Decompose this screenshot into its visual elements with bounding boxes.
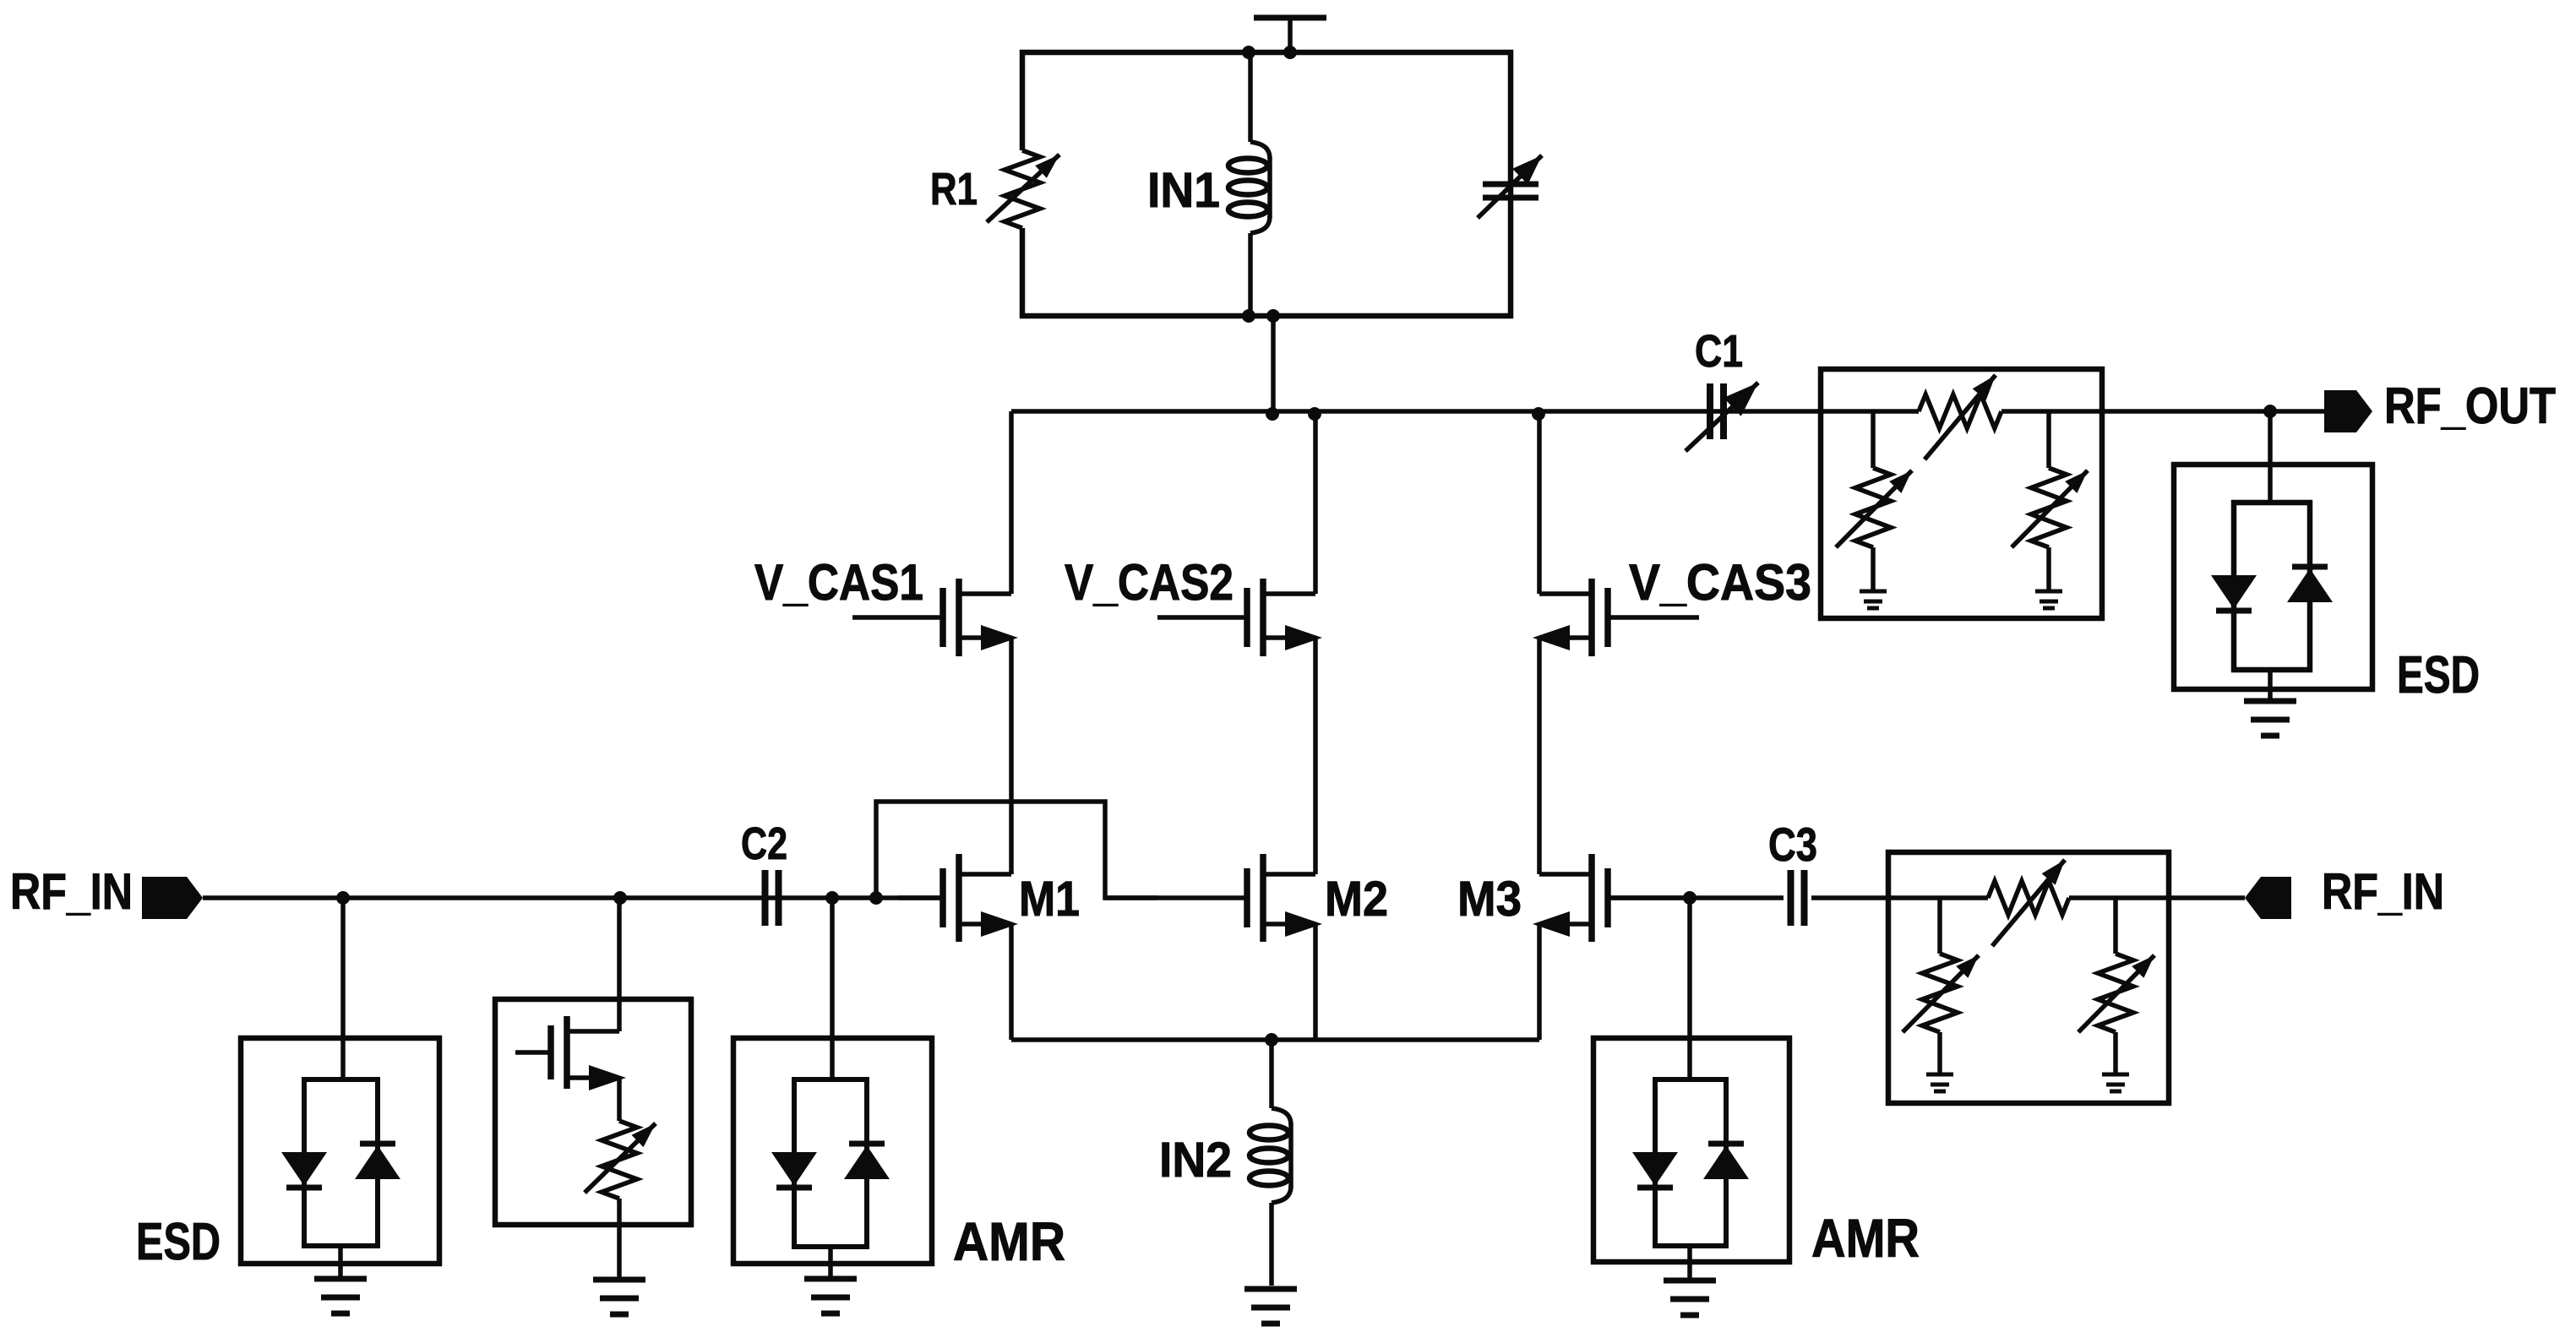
label IN2 (1159, 1133, 1232, 1188)
AMR box right (1593, 1038, 1789, 1262)
wire attenuator-lower internal (2069, 895, 2169, 900)
wire V_CAS2 drain (1313, 411, 1318, 594)
label V_CAS1 (754, 554, 923, 611)
resistor attenuator-upper series (variable) (1919, 375, 2001, 459)
wire upper shunt right to ground (2046, 547, 2051, 590)
wire AMR right to ground (1687, 1246, 1692, 1280)
wire shunt left to ground (1937, 1032, 1942, 1074)
wire to ESD right (2268, 411, 2273, 503)
wire ESD right to ground (2268, 670, 2273, 701)
inductor IN1 (1228, 52, 1270, 316)
diode AMR-left down (771, 1152, 817, 1188)
wire M2 source to bus (1313, 924, 1318, 1040)
svg-text:RF_IN: RF_IN (2322, 863, 2444, 920)
svg-text:V_CAS3: V_CAS3 (1629, 554, 1811, 611)
wire drain bus (1011, 409, 2326, 414)
svg-text:M3: M3 (1457, 872, 1522, 927)
label V_CAS3 (1629, 554, 1811, 611)
label AMR left (953, 1211, 1065, 1272)
resistor attenuator-upper shunt right (variable) (2012, 468, 2088, 547)
AMR right inner rectangle (1655, 1079, 1726, 1246)
label AMR right (1811, 1208, 1920, 1269)
node right junction (1683, 891, 1696, 905)
resistor attenuator-lower shunt right (variable) (2078, 954, 2154, 1032)
transistor M3 (1533, 854, 1690, 942)
node RF_IN junction A (336, 891, 350, 905)
capacitor C1 (variable) (1686, 383, 1758, 451)
attenuator box lower (1888, 852, 2169, 1103)
wire V_CAS2 source to M2 drain (1313, 638, 1318, 874)
svg-text:ESD: ESD (2397, 646, 2480, 704)
transistor V_CAS2 (1157, 579, 1322, 656)
AMR box left (733, 1038, 932, 1264)
wire attenuator-lower shunt left (1937, 898, 1942, 954)
wire V_CAS1 drain (1009, 411, 1014, 594)
svg-text:AMR: AMR (1811, 1208, 1920, 1269)
label IN1 (1147, 163, 1220, 218)
transistor V_CAS3 (1533, 579, 1699, 656)
svg-text:RF_IN: RF_IN (10, 863, 133, 920)
svg-text:V_CAS1: V_CAS1 (754, 554, 923, 611)
ground ESD right (2244, 701, 2296, 736)
wire shunt right to ground (2113, 1032, 2118, 1074)
svg-text:R1: R1 (930, 164, 978, 215)
wire upper shunt left to ground (1871, 547, 1876, 590)
transistor varistor-box NMOS (515, 1016, 626, 1090)
wire to ESD left (340, 898, 346, 1079)
diode ESD-right down (2211, 575, 2257, 611)
label ESD left (136, 1213, 221, 1271)
capacitor C-tank (variable) (1478, 52, 1542, 316)
label R1 (930, 164, 978, 215)
resistor attenuator-upper shunt left (variable) (1836, 468, 1912, 547)
transistor V_CAS1 (852, 579, 1018, 656)
node drain bus dots (1266, 407, 1545, 421)
svg-text:C2: C2 (741, 818, 787, 869)
wire attenuator to RF_IN right (2169, 895, 2245, 900)
node tank bottom dots (1242, 309, 1280, 323)
svg-text:C1: C1 (1695, 326, 1743, 377)
ground ESD left (314, 1279, 367, 1313)
transistor M1 (898, 854, 1018, 942)
AMR left inner rectangle (794, 1079, 867, 1247)
wire attenuator-lower shunt right (2113, 898, 2118, 954)
node source bus dot (1265, 1033, 1278, 1047)
label RF_OUT (2384, 378, 2556, 434)
wire to varistor box (617, 898, 622, 1031)
wire to AMR right (1687, 898, 1692, 1079)
svg-text:IN2: IN2 (1159, 1133, 1232, 1188)
wire M3 gate to C3 (1609, 895, 1784, 900)
inductor IN2 (1250, 1040, 1291, 1286)
varistor box (495, 999, 691, 1225)
wire gate feed loop to M2 (876, 802, 1157, 898)
diode AMR-left up (844, 1144, 890, 1179)
power supply VDD (1254, 18, 1326, 52)
resistor attenuator-lower shunt left (variable) (1903, 954, 1979, 1032)
wire AMR left to ground (828, 1247, 833, 1279)
wire V_CAS1 source to M1 drain (1009, 638, 1014, 874)
wire source bus (1011, 1037, 1539, 1042)
diode ESD-right up (2287, 567, 2333, 602)
label V_CAS2 (1065, 554, 1234, 611)
svg-text:C3: C3 (1768, 818, 1817, 871)
resistor attenuator-lower series (variable) (1988, 860, 2069, 946)
diode ESD-left up (355, 1144, 400, 1179)
label C1 (1695, 326, 1743, 377)
svg-text:AMR: AMR (953, 1211, 1065, 1272)
wire attenuator-upper shunt right (2046, 411, 2051, 468)
svg-text:ESD: ESD (136, 1213, 221, 1271)
ground AMR right (1664, 1280, 1716, 1315)
capacitor C3 (1791, 870, 1805, 926)
svg-text:M2: M2 (1325, 872, 1388, 927)
terminal RF_IN left arrow (142, 877, 203, 919)
attenuator box upper (1821, 369, 2102, 618)
wire RF_IN left (203, 895, 943, 900)
wire V_CAS3 drain (1537, 411, 1542, 594)
ground varistor box (593, 1280, 645, 1314)
diode AMR-right up (1703, 1144, 1749, 1179)
ground IN2 (1244, 1289, 1297, 1324)
terminal RF_IN right arrow (2245, 877, 2291, 919)
wire tank to drain bus (1271, 316, 1276, 414)
ESD box left (241, 1038, 439, 1264)
wire M3 source to bus (1537, 924, 1542, 1040)
transistor M2 (1105, 854, 1322, 942)
ESD left inner rectangle (304, 1079, 378, 1246)
ESD box right (2174, 465, 2372, 689)
terminal RF_OUT arrow (2324, 390, 2372, 432)
label C2 (741, 818, 787, 869)
label M1 (1019, 872, 1080, 927)
wire M1 source to bus (1009, 924, 1014, 1040)
label M2 (1325, 872, 1388, 927)
svg-text:RF_OUT: RF_OUT (2384, 378, 2556, 434)
diode ESD-left down (281, 1152, 327, 1188)
wire to AMR left (830, 898, 835, 1079)
ground attenuator-upper left (1860, 591, 1887, 608)
node VDD-tank junction dots (1242, 46, 1297, 59)
node RF_IN junction B (613, 891, 627, 905)
ground attenuator-upper right (2035, 591, 2062, 608)
diode AMR-right down (1632, 1152, 1678, 1188)
wire V_CAS3 source to M3 drain (1537, 638, 1542, 874)
capacitor C2 (765, 870, 779, 926)
wire attenuator-upper shunt left (1871, 411, 1876, 468)
svg-text:V_CAS2: V_CAS2 (1065, 554, 1234, 611)
tank circuit box (1022, 52, 1511, 316)
resistor varistor (variable) (585, 1078, 656, 1279)
node gate-loop junction (869, 891, 883, 905)
node C2 out junction (825, 891, 839, 905)
wire ESD left to ground (338, 1246, 343, 1279)
ground attenuator-lower right (2102, 1074, 2129, 1091)
label M3 (1457, 872, 1522, 927)
ESD right inner rectangle (2234, 503, 2310, 670)
svg-text:IN1: IN1 (1147, 163, 1220, 218)
ground attenuator-lower left (1926, 1074, 1953, 1091)
label RF_IN left (10, 863, 133, 920)
svg-text:M1: M1 (1019, 872, 1080, 927)
wire C3 to attenuator (1811, 895, 1988, 900)
ground AMR left (804, 1279, 857, 1313)
label C3 (1768, 818, 1817, 871)
node RF_OUT junction (2263, 405, 2277, 418)
resistor R1 (variable) (987, 150, 1059, 228)
label RF_IN right (2322, 863, 2444, 920)
label ESD right (2397, 646, 2480, 704)
